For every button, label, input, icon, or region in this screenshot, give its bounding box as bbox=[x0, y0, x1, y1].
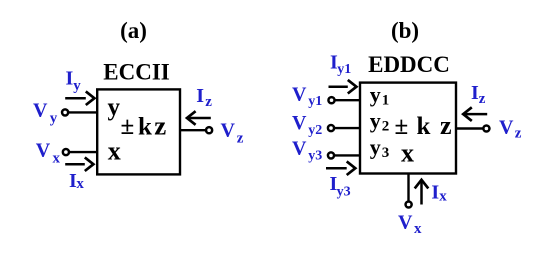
wire y2 (U2) bbox=[334, 127, 360, 129]
op-amp block U2 EDDCC body bbox=[360, 83, 456, 174]
terminal node Vx circle (U2) bbox=[406, 201, 412, 207]
terminal node Vz circle (U2) bbox=[483, 125, 489, 131]
svg-text:±: ± bbox=[121, 113, 135, 140]
svg-text:(a): (a) bbox=[120, 18, 147, 43]
label Vy bbox=[33, 99, 58, 126]
svg-text:k: k bbox=[138, 113, 152, 140]
current arrow Iz (U1) bbox=[187, 111, 211, 125]
label Vy3 bbox=[292, 138, 322, 164]
svg-text:V: V bbox=[499, 117, 514, 139]
pin label y2 bbox=[370, 108, 390, 135]
wire x (U1) bbox=[68, 151, 98, 153]
svg-text:x: x bbox=[76, 176, 84, 192]
svg-text:y3: y3 bbox=[308, 148, 322, 163]
label Iy bbox=[66, 67, 82, 94]
wire z (U1) bbox=[180, 129, 206, 131]
svg-text:x: x bbox=[414, 221, 422, 237]
current arrow Ix (U2) bbox=[415, 180, 429, 205]
wire y3 (U2) bbox=[334, 154, 360, 156]
svg-text:EDDCC: EDDCC bbox=[368, 52, 450, 77]
gain label ± k (U2) bbox=[395, 113, 431, 140]
label Vx bbox=[36, 140, 61, 167]
svg-text:z: z bbox=[515, 125, 522, 141]
svg-text:V: V bbox=[292, 138, 307, 160]
current arrow Iz (U2) bbox=[463, 107, 487, 121]
svg-text:z: z bbox=[205, 94, 212, 110]
terminal node Vy circle bbox=[62, 109, 68, 115]
svg-text:V: V bbox=[292, 112, 307, 134]
label Vz (U2) bbox=[499, 117, 522, 142]
svg-text:y: y bbox=[370, 134, 381, 159]
svg-text:2: 2 bbox=[382, 119, 390, 135]
label Ix bbox=[69, 170, 84, 192]
svg-text:y: y bbox=[73, 78, 81, 94]
label Vx (U2) bbox=[398, 211, 422, 237]
op-amp block U1 ECCII body bbox=[97, 89, 180, 174]
svg-text:y3: y3 bbox=[337, 185, 351, 200]
terminal node Vy1 circle bbox=[328, 97, 334, 103]
svg-text:y: y bbox=[370, 82, 381, 107]
label Iz (U2) bbox=[471, 82, 486, 107]
terminal node Vy2 circle bbox=[328, 125, 334, 131]
svg-text:y: y bbox=[108, 94, 121, 121]
svg-text:k: k bbox=[417, 113, 431, 140]
svg-text:I: I bbox=[431, 181, 439, 203]
svg-text:x: x bbox=[401, 139, 414, 168]
svg-text:±: ± bbox=[395, 113, 409, 140]
svg-text:y2: y2 bbox=[308, 123, 322, 138]
current arrow Ix bbox=[65, 157, 93, 171]
wire y1 (U2) bbox=[334, 99, 360, 101]
svg-text:y: y bbox=[370, 108, 381, 133]
label Vz (U1) bbox=[221, 120, 244, 147]
svg-text:z: z bbox=[154, 111, 166, 141]
svg-text:x: x bbox=[439, 188, 447, 204]
svg-text:V: V bbox=[221, 120, 236, 142]
label Ix (U2) bbox=[431, 181, 447, 204]
svg-text:V: V bbox=[36, 140, 51, 162]
svg-text:ECCII: ECCII bbox=[103, 60, 170, 85]
svg-text:y: y bbox=[50, 110, 58, 126]
svg-text:V: V bbox=[33, 99, 48, 121]
svg-text:z: z bbox=[479, 91, 486, 107]
current arrow Iy1 bbox=[329, 80, 357, 94]
pin label y3 bbox=[370, 134, 390, 161]
label Iy3 bbox=[330, 173, 351, 199]
wire y (U1) bbox=[68, 111, 98, 113]
svg-text:x: x bbox=[108, 137, 121, 166]
svg-text:y1: y1 bbox=[337, 62, 351, 77]
svg-text:z: z bbox=[440, 111, 452, 140]
label Vy2 bbox=[292, 112, 322, 138]
wire x stub (U2) bbox=[407, 174, 409, 202]
svg-text:1: 1 bbox=[382, 93, 390, 109]
pin label y1 bbox=[370, 82, 390, 109]
current arrow Iy3 bbox=[326, 161, 355, 175]
svg-text:I: I bbox=[471, 82, 479, 104]
label Vy1 bbox=[292, 83, 322, 109]
gain label ± k z bbox=[121, 111, 167, 141]
label Iz (U1) bbox=[196, 85, 212, 110]
current arrow Iy bbox=[65, 91, 94, 105]
svg-text:V: V bbox=[398, 211, 413, 233]
svg-text:y1: y1 bbox=[308, 94, 322, 109]
svg-text:z: z bbox=[237, 130, 244, 146]
terminal node Vz circle (U1) bbox=[206, 127, 212, 133]
svg-text:(b): (b) bbox=[391, 18, 419, 43]
svg-text:V: V bbox=[292, 83, 307, 105]
wire z (U2) bbox=[456, 127, 484, 129]
svg-text:3: 3 bbox=[382, 145, 390, 161]
label Iy1 bbox=[330, 51, 351, 77]
svg-text:x: x bbox=[53, 150, 61, 166]
svg-text:I: I bbox=[196, 85, 204, 107]
terminal node Vx circle bbox=[63, 149, 69, 155]
terminal node Vy3 circle bbox=[328, 152, 334, 158]
